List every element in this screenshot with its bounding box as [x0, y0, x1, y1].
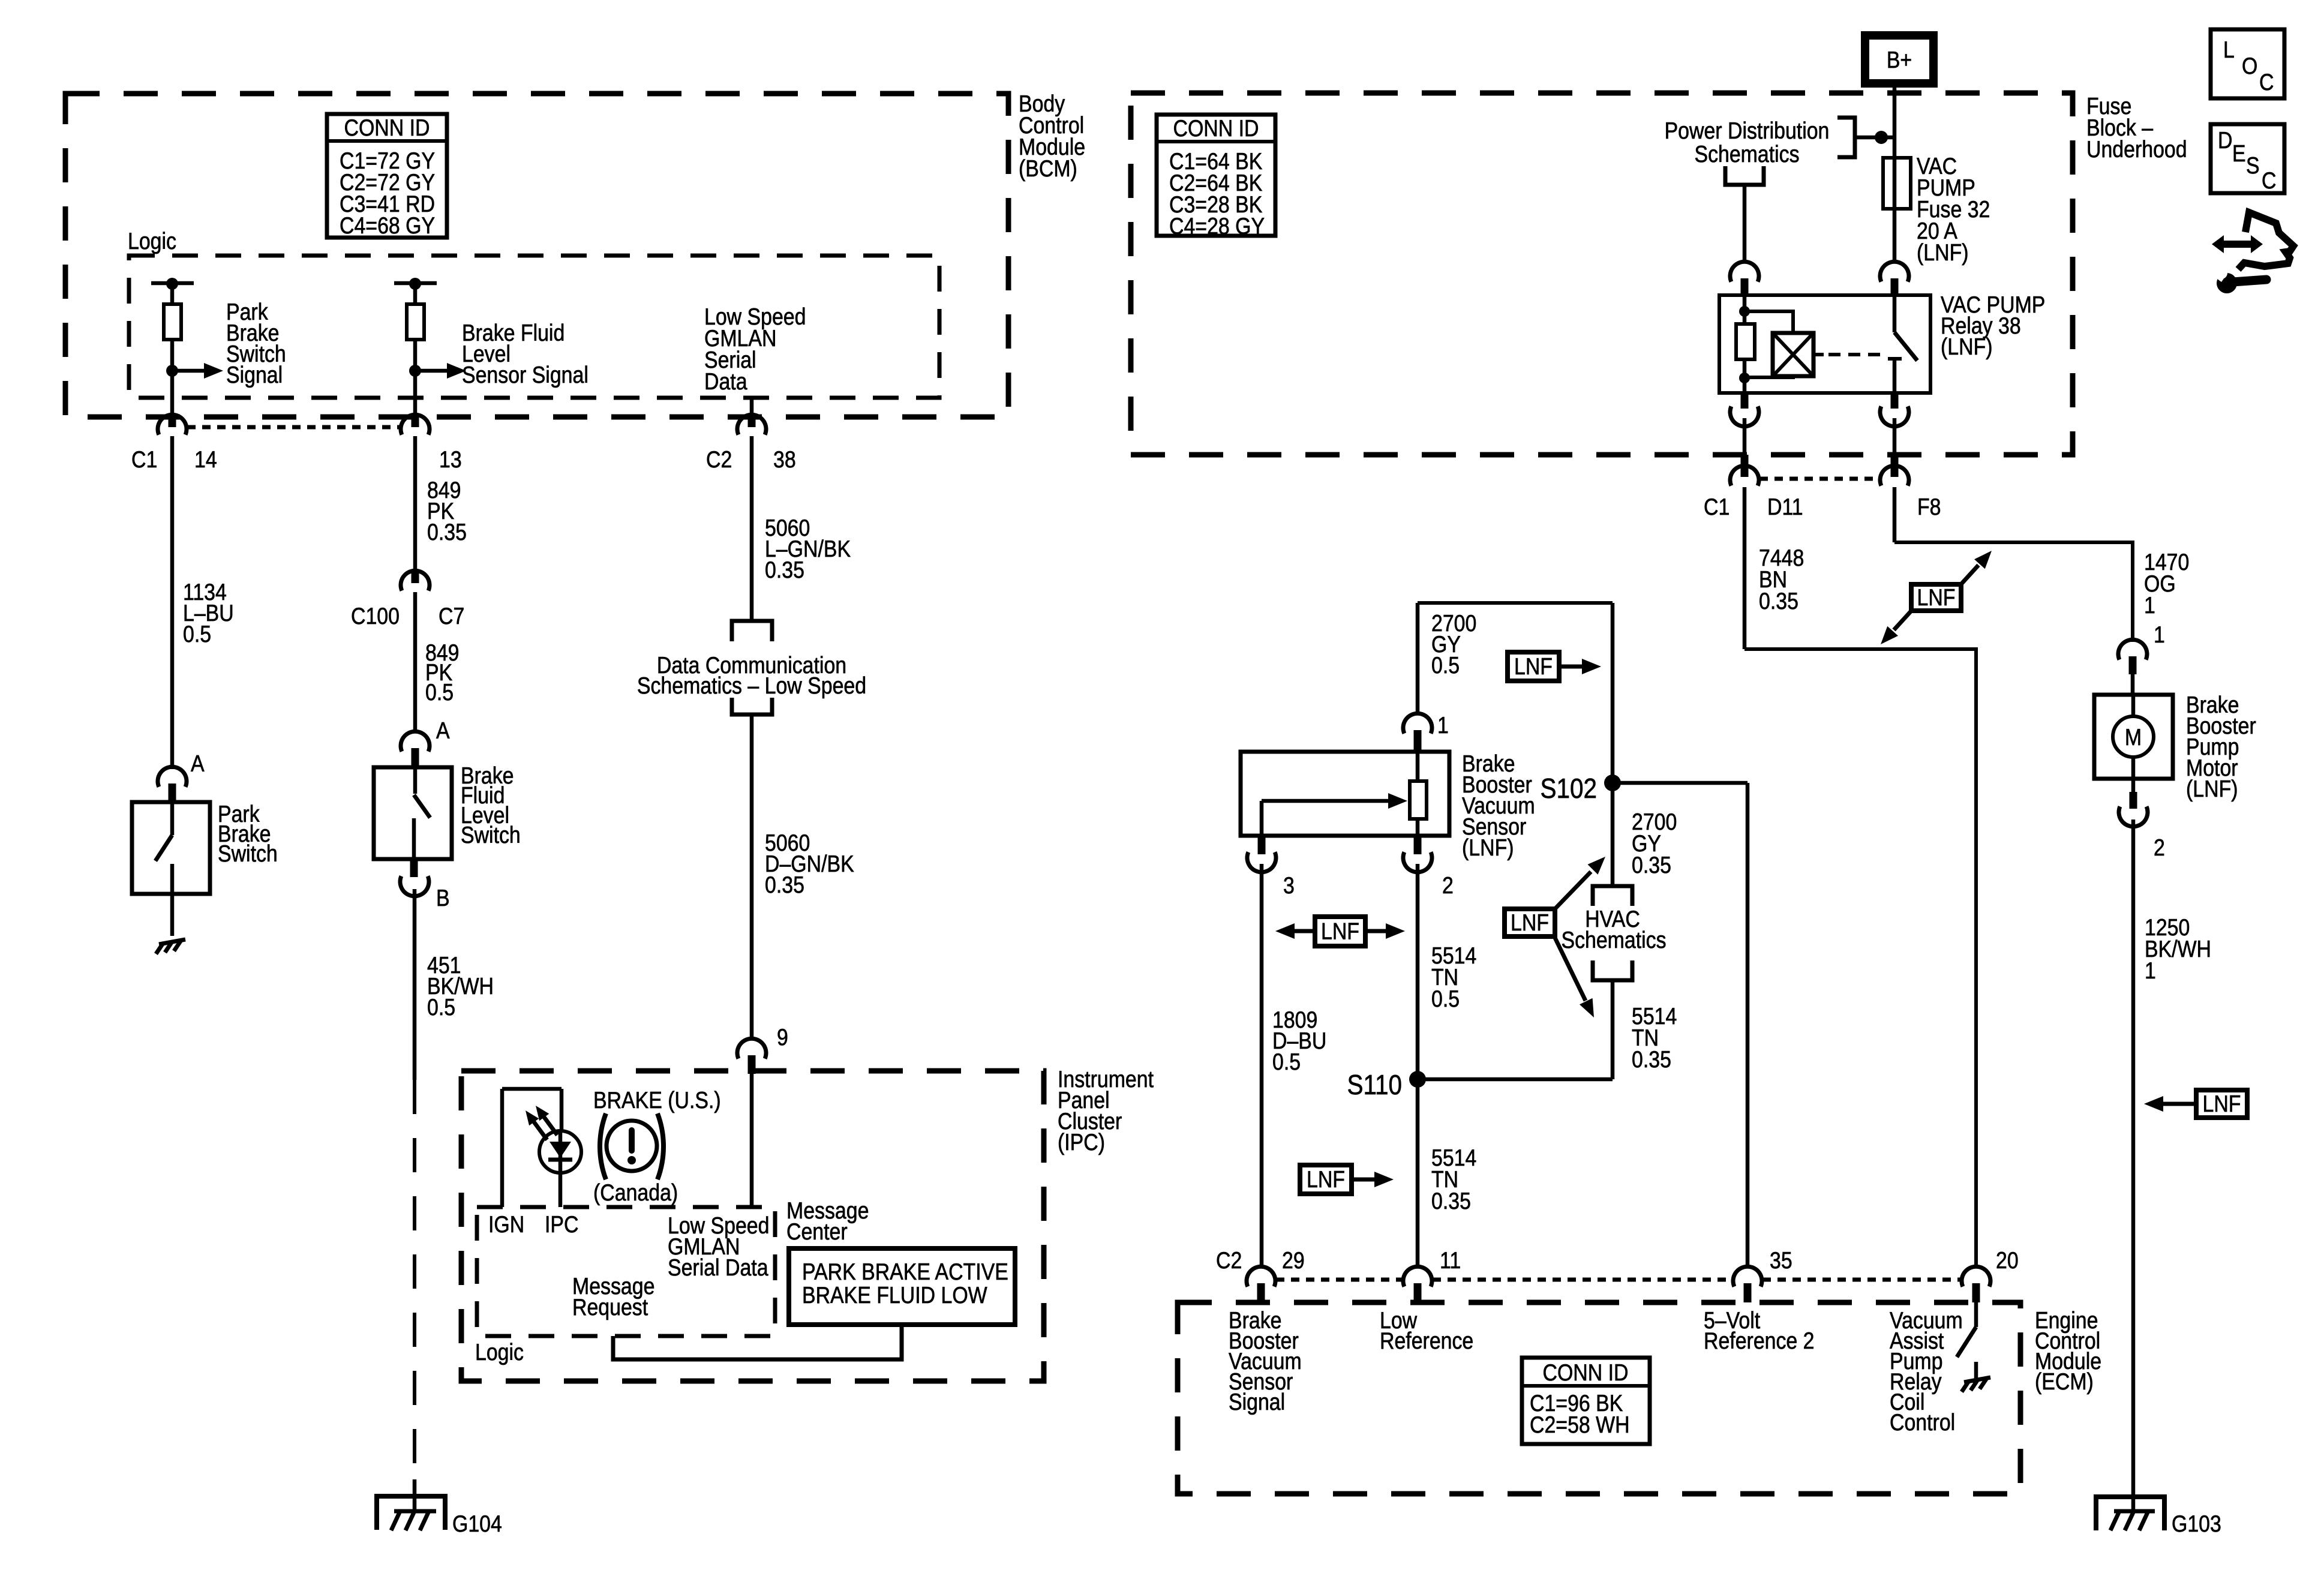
svg-text:Data: Data [704, 368, 747, 395]
svg-text:M: M [2125, 724, 2142, 751]
svg-text:C100: C100 [351, 603, 400, 629]
svg-text:Center: Center [786, 1218, 848, 1245]
svg-text:IGN: IGN [488, 1211, 524, 1238]
svg-text:11: 11 [1440, 1247, 1461, 1274]
svg-text:(LNF): (LNF) [1462, 834, 1514, 861]
svg-text:CONN ID: CONN ID [1542, 1359, 1628, 1386]
svg-text:C: C [2259, 69, 2274, 95]
svg-text:Logic: Logic [475, 1339, 524, 1365]
svg-text:BRAKE FLUID LOW: BRAKE FLUID LOW [802, 1282, 987, 1308]
svg-text:Schematics: Schematics [1694, 141, 1799, 167]
svg-text:0.35: 0.35 [427, 519, 467, 545]
svg-text:C2: C2 [706, 446, 732, 473]
svg-text:1: 1 [2154, 622, 2165, 648]
svg-text:1: 1 [2144, 592, 2155, 619]
svg-text:(LNF): (LNF) [1917, 239, 1969, 266]
svg-text:F8: F8 [1917, 494, 1941, 520]
svg-text:S: S [2246, 152, 2260, 179]
svg-text:C1: C1 [1704, 494, 1730, 520]
svg-text:2: 2 [2154, 834, 2165, 861]
svg-text:C: C [2262, 167, 2276, 194]
svg-text:0.5: 0.5 [1431, 986, 1460, 1012]
svg-text:A: A [436, 718, 450, 744]
svg-text:1: 1 [2145, 957, 2156, 984]
svg-text:B+: B+ [1887, 47, 1912, 73]
svg-text:(IPC): (IPC) [1058, 1129, 1105, 1155]
svg-text:G103: G103 [2172, 1511, 2221, 1537]
svg-text:CONN ID: CONN ID [344, 115, 430, 141]
svg-text:LNF: LNF [1321, 918, 1359, 944]
svg-text:C7: C7 [439, 603, 464, 629]
svg-text:13: 13 [439, 446, 462, 473]
svg-text:29: 29 [1282, 1247, 1305, 1274]
svg-text:G104: G104 [452, 1511, 502, 1537]
svg-text:0.5: 0.5 [427, 994, 455, 1020]
svg-text:(LNF): (LNF) [2186, 776, 2238, 802]
svg-text:C4=28 GY: C4=28 GY [1169, 213, 1265, 239]
svg-text:A: A [191, 751, 205, 777]
svg-text:14: 14 [194, 446, 217, 473]
svg-text:20: 20 [1996, 1247, 2019, 1274]
svg-text:LNF: LNF [1511, 909, 1549, 936]
svg-text:IPC: IPC [545, 1211, 578, 1238]
svg-text:Control: Control [1890, 1409, 1955, 1436]
svg-text:3: 3 [1283, 872, 1295, 899]
svg-text:Switch: Switch [218, 840, 278, 867]
svg-text:Logic: Logic [128, 228, 176, 254]
svg-text:C1: C1 [131, 446, 157, 473]
svg-text:LNF: LNF [1917, 584, 1956, 611]
svg-text:E: E [2232, 140, 2246, 167]
svg-text:(ECM): (ECM) [2035, 1368, 2094, 1395]
svg-text:LNF: LNF [2203, 1091, 2241, 1117]
svg-text:L: L [2223, 37, 2235, 63]
svg-text:0.35: 0.35 [765, 872, 804, 898]
svg-text:Serial Data: Serial Data [668, 1254, 768, 1281]
svg-text:D: D [2218, 127, 2232, 154]
svg-text:Request: Request [572, 1294, 648, 1320]
svg-text:LNF: LNF [1514, 653, 1553, 680]
svg-text:C2=58 WH: C2=58 WH [1530, 1412, 1630, 1438]
svg-text:0.5: 0.5 [425, 679, 454, 706]
svg-text:Switch: Switch [461, 822, 521, 848]
svg-text:Underhood: Underhood [2086, 136, 2187, 163]
svg-text:CONN ID: CONN ID [1173, 115, 1259, 142]
svg-text:Schematics – Low Speed: Schematics – Low Speed [637, 673, 866, 699]
svg-text:Signal: Signal [226, 362, 283, 388]
svg-text:Power Distribution: Power Distribution [1665, 118, 1830, 144]
svg-text:S102: S102 [1540, 774, 1597, 804]
svg-text:0.35: 0.35 [765, 557, 804, 583]
svg-text:Schematics: Schematics [1561, 927, 1666, 953]
svg-text:2: 2 [1442, 872, 1454, 899]
svg-text:35: 35 [1770, 1247, 1792, 1274]
svg-text:Sensor Signal: Sensor Signal [462, 362, 588, 388]
svg-text:0.5: 0.5 [1431, 652, 1460, 679]
svg-text:B: B [436, 885, 450, 911]
svg-text:C2: C2 [1216, 1247, 1242, 1274]
svg-text:C4=68 GY: C4=68 GY [340, 212, 435, 239]
svg-text:(LNF): (LNF) [1941, 334, 1993, 360]
svg-text:0.35: 0.35 [1759, 588, 1798, 614]
svg-text:S110: S110 [1347, 1070, 1402, 1101]
svg-text:Reference 2: Reference 2 [1704, 1328, 1815, 1354]
svg-text:D11: D11 [1767, 494, 1803, 520]
svg-text:0.5: 0.5 [183, 621, 211, 647]
svg-text:1: 1 [1437, 712, 1449, 739]
svg-text:BRAKE (U.S.): BRAKE (U.S.) [593, 1087, 721, 1113]
svg-text:(BCM): (BCM) [1019, 155, 1077, 182]
svg-text:38: 38 [773, 446, 796, 473]
svg-text:0.35: 0.35 [1431, 1188, 1471, 1214]
svg-text:0.35: 0.35 [1632, 852, 1671, 878]
svg-text:0.5: 0.5 [1272, 1049, 1301, 1075]
svg-text:LNF: LNF [1307, 1166, 1345, 1193]
svg-text:O: O [2242, 53, 2257, 79]
svg-text:(Canada): (Canada) [593, 1179, 678, 1206]
svg-text:9: 9 [777, 1024, 788, 1050]
svg-text:Signal: Signal [1229, 1389, 1285, 1415]
svg-text:Reference: Reference [1380, 1328, 1473, 1354]
svg-text:0.35: 0.35 [1632, 1046, 1671, 1073]
svg-text:PARK BRAKE ACTIVE: PARK BRAKE ACTIVE [802, 1259, 1008, 1285]
